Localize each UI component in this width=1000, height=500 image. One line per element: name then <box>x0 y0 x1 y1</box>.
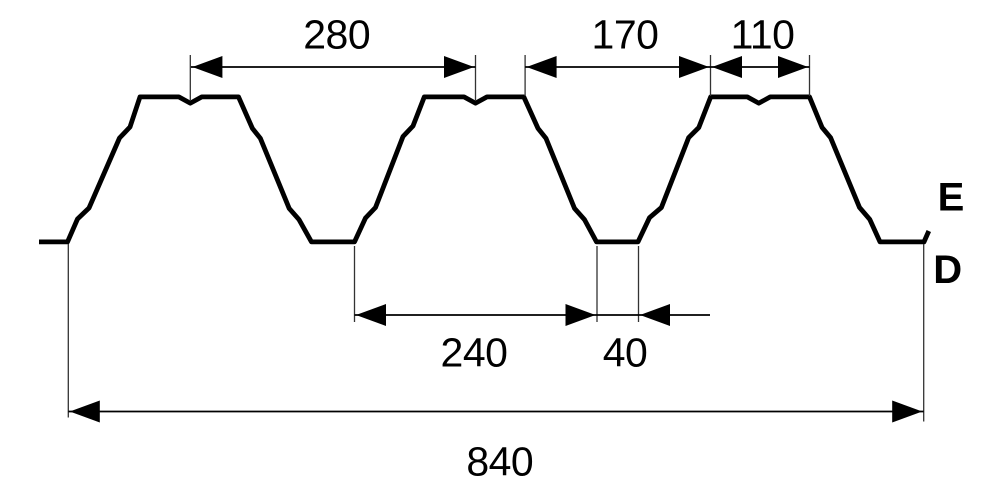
svg-text:240: 240 <box>441 330 508 376</box>
label D <box>933 248 962 292</box>
dimension text 170 <box>592 12 659 58</box>
label E <box>938 175 965 219</box>
extension line at left corner of valley 2 <box>596 246 598 322</box>
svg-text:280: 280 <box>303 12 370 58</box>
dimension line 280 <box>191 56 476 78</box>
extension line at right corner of valley 2 <box>638 246 640 322</box>
svg-text:170: 170 <box>592 12 659 58</box>
dimension text 40 <box>603 330 648 376</box>
profile outline (trapezoidal sheet cross-section) <box>39 97 929 242</box>
extension line at right corner of valley 1 <box>354 246 356 322</box>
dimension line 40 with outside arrow and tail <box>597 304 710 326</box>
extension line at right end of profile <box>923 244 925 422</box>
dimension text 110 <box>731 12 795 58</box>
svg-text:40: 40 <box>603 330 648 376</box>
dimension text 840 <box>466 439 533 485</box>
svg-text:110: 110 <box>731 12 795 58</box>
extension line at right corner of crest 3 <box>809 55 811 96</box>
extension line at right corner of crest 2 <box>524 55 526 96</box>
extension line at notch of crest 1 <box>189 55 191 101</box>
dimension line 240 <box>355 304 598 326</box>
extension line at left corner of crest 3 <box>710 55 712 96</box>
dimension line 110 <box>711 56 810 78</box>
svg-text:D: D <box>933 248 962 292</box>
svg-text:E: E <box>938 175 965 219</box>
dimension line 840 <box>68 401 923 423</box>
dimension text 280 <box>303 12 370 58</box>
extension line at notch of crest 2 <box>475 55 477 101</box>
extension line at left end of profile <box>67 244 69 418</box>
svg-text:840: 840 <box>466 439 533 485</box>
dimension line 170 <box>525 56 710 78</box>
dimension text 240 <box>441 330 508 376</box>
